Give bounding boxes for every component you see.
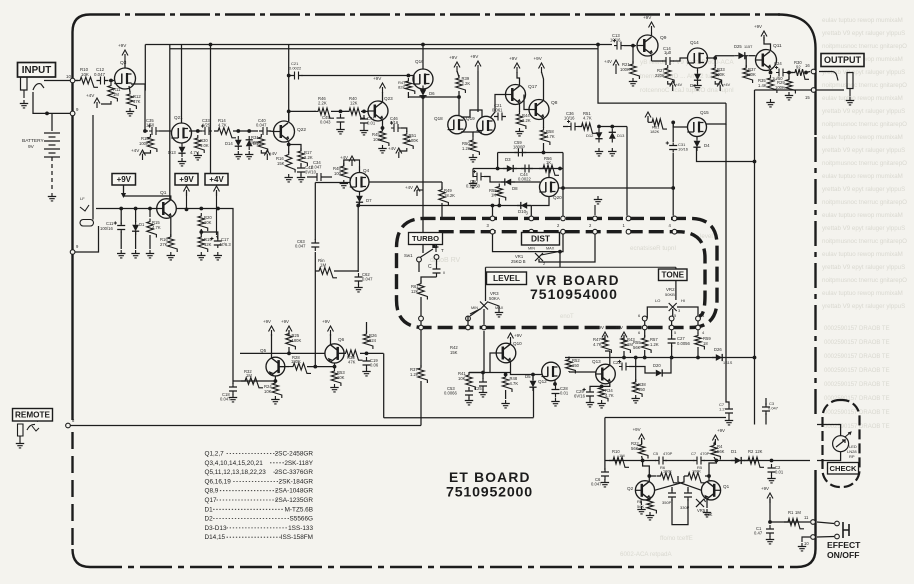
svg-text:+9V: +9V — [281, 319, 289, 324]
wire r49 — [441, 203, 443, 218]
wire pin3b drop — [530, 206, 532, 216]
wire row 182 — [484, 177, 540, 183]
+9V bent arrow q15 — [647, 116, 649, 122]
wire q19 source — [473, 131, 482, 133]
wire q10 emitter — [511, 362, 543, 375]
battery B1 — [44, 133, 60, 157]
ground under R48 — [340, 180, 348, 188]
pin pair 4 at x674.5 — [672, 216, 677, 221]
svg-text:2SC-3376GR: 2SC-3376GR — [275, 469, 314, 476]
svg-text:Q14: Q14 — [690, 40, 699, 45]
transistor Q13 — [596, 364, 616, 384]
resistor R61 12K — [418, 281, 428, 300]
node q15 gate — [671, 121, 675, 125]
resistor R46 2.2K — [314, 108, 334, 118]
capacitor C50 0.22/50 electrolytic — [474, 173, 484, 181]
resistor R24 10K — [272, 380, 282, 398]
svg-text:+4V: +4V — [604, 59, 612, 64]
svg-text:1/25: 1/25 — [202, 123, 211, 128]
diode D13 — [609, 132, 616, 138]
wire r20-r19 — [200, 229, 202, 235]
capacitor C46 7/16 — [391, 124, 401, 132]
pin pair 1 at x628.5 — [626, 216, 631, 221]
+4V arrow under R13 — [143, 150, 151, 153]
capacitor C24 electrolytic — [776, 69, 786, 77]
resistor R39 2.2K — [456, 75, 466, 93]
svg-text:47K: 47K — [133, 99, 141, 104]
node row205 at 492 — [491, 204, 495, 208]
transistor Q1 — [157, 199, 177, 219]
resistor R48 100 — [341, 163, 351, 181]
ground under r24 — [271, 396, 279, 404]
resistor R48 4.7K — [502, 374, 512, 392]
wire r61 down — [420, 297, 422, 367]
wire pin9 stub — [47, 112, 70, 114]
resistor R17 2.2K — [298, 148, 308, 166]
svg-text:II: II — [443, 271, 445, 275]
wire vr 267 — [486, 266, 676, 268]
svg-text:1M: 1M — [795, 510, 801, 515]
wire rin right — [334, 270, 359, 272]
node q9 base — [631, 44, 635, 48]
wire to Q3 gate — [109, 80, 114, 82]
input jack ground — [20, 100, 28, 108]
svg-text:2SA-1048GR: 2SA-1048GR — [275, 488, 313, 495]
pin pair 2 at x563 — [561, 216, 566, 221]
node d26 row — [753, 356, 757, 360]
capacitor C44 0.0022 — [521, 165, 533, 173]
ground under c1 — [766, 536, 774, 544]
wire cross A — [678, 476, 702, 490]
pin pair 3 at x492.5 — [490, 216, 495, 221]
svg-text:6V/16: 6V/16 — [574, 394, 586, 399]
resistor R13 100K — [147, 134, 157, 152]
svg-text:2SK-184GR: 2SK-184GR — [279, 478, 314, 485]
svg-text:470P: 470P — [700, 451, 710, 456]
wire Q3 drain up — [124, 60, 126, 68]
svg-text:Q23: Q23 — [384, 96, 393, 101]
wire battery top — [51, 113, 53, 131]
svg-text:Q12: Q12 — [538, 379, 547, 384]
transistor Q11 — [756, 50, 777, 71]
wire r58b — [635, 358, 637, 383]
wire q6 base — [339, 352, 345, 354]
svg-text:150: 150 — [572, 363, 580, 368]
wire r37 top — [745, 56, 747, 67]
ground under c6 — [601, 479, 609, 487]
wire r43 down — [623, 351, 625, 358]
svg-text:100K: 100K — [620, 67, 630, 72]
svg-text:+4V: +4V — [86, 93, 95, 98]
wire r41 row — [469, 372, 511, 374]
wire q1 coll up — [124, 196, 171, 200]
wire row75 to q16 — [408, 76, 414, 84]
diode D3 — [507, 165, 513, 172]
svg-text:1.2: 1.2 — [719, 407, 725, 412]
output jack hook — [819, 72, 838, 81]
ground under r35 — [766, 99, 774, 107]
node tone b1 — [643, 356, 647, 360]
ground under R12 — [126, 108, 134, 116]
node row152 a — [542, 151, 546, 155]
pin 9b on border — [70, 250, 75, 255]
+9V arrow r4 — [714, 439, 716, 445]
svg-text:noitpmusnoc tnerruc gnitarepO: noitpmusnoc tnerruc gnitarepO — [822, 82, 907, 89]
svg-text:1M: 1M — [619, 453, 625, 458]
wire pin3 drop — [492, 206, 494, 216]
svg-text:D1: D1 — [139, 222, 145, 227]
node q20 pin2 — [561, 186, 565, 190]
ground under qa — [637, 506, 645, 514]
+9V arrow R25 — [288, 330, 290, 336]
svg-text:eulav tuptuo rewop mumixaM: eulav tuptuo rewop mumixaM — [822, 251, 903, 258]
svg-text:D14: D14 — [225, 141, 233, 146]
resistor R38 47K — [342, 350, 363, 360]
transistor Q16 — [413, 69, 433, 89]
svg-text:yrettab V9 epyt raluger ylppuS: yrettab V9 epyt raluger ylppuS — [822, 147, 905, 154]
svg-text:Q17: Q17 — [205, 497, 218, 504]
resistor R52 150 — [566, 357, 576, 374]
wire r52 to q13 — [569, 371, 596, 373]
vertical x315 rin — [314, 271, 316, 367]
wire td2 — [671, 345, 673, 358]
svg-text:C: C — [428, 264, 432, 270]
+9V arrow pair1 — [456, 66, 458, 72]
node c21 left — [287, 74, 291, 78]
resistor R56 1K — [539, 165, 559, 175]
wire x627 to pin — [626, 127, 628, 216]
svg-text:100K: 100K — [409, 138, 419, 143]
svg-text:+9V: +9V — [596, 325, 604, 330]
svg-text:TONE: TONE — [661, 270, 684, 279]
wire q20 bottom — [531, 197, 549, 206]
resistor R11 1M — [108, 83, 118, 102]
svg-text:D5: D5 — [525, 374, 531, 379]
svg-text:C25: C25 — [474, 386, 482, 391]
svg-text:eulav tuptuo rewop mumixaM: eulav tuptuo rewop mumixaM — [822, 290, 903, 297]
node q1 out end — [216, 207, 220, 211]
resistor R2 12K — [744, 457, 764, 467]
wire q11 emitter — [770, 70, 772, 73]
wire pin11 row — [770, 521, 810, 523]
resistor R45 10K — [379, 128, 389, 146]
svg-text:D12: D12 — [586, 133, 594, 138]
svg-text:2SC-2458GR: 2SC-2458GR — [275, 451, 314, 458]
tone stub2 — [671, 321, 673, 325]
wire row 75 — [302, 75, 409, 77]
wire Q8 collector — [542, 72, 544, 101]
resistor R44 2.2K — [516, 111, 526, 129]
svg-text:eulav tuptuo rewop mumixaM: eulav tuptuo rewop mumixaM — [822, 17, 903, 24]
+9V arrow Q9 — [651, 26, 653, 32]
svg-text:D4: D4 — [704, 143, 710, 148]
wire to clip diodes — [233, 130, 258, 132]
wire Q23 collector up — [382, 92, 384, 102]
svg-text:7510954000: 7510954000 — [530, 286, 618, 302]
resistor Rin 1M — [315, 268, 337, 278]
wire input to border — [44, 80, 70, 82]
CHECK label — [828, 463, 859, 475]
node battery junction — [45, 112, 49, 116]
node d12 top — [597, 125, 601, 129]
wire osc bottom — [672, 499, 688, 525]
wire top bus second — [170, 48, 598, 50]
wire battery bottom — [51, 157, 53, 192]
svg-text:+4V: +4V — [723, 82, 731, 87]
capacitor C23 electrolytic — [619, 363, 629, 371]
svg-text:noitpmusnoc tnerruc gnitarepO: noitpmusnoc tnerruc gnitarepO — [822, 43, 907, 50]
wire row 353 left — [240, 352, 325, 354]
svg-text:50KB: 50KB — [665, 292, 675, 297]
diode D8 — [505, 179, 511, 186]
svg-text:TURBO: TURBO — [412, 234, 439, 243]
wire q1 out — [176, 208, 218, 210]
wire x358 down — [357, 206, 359, 273]
wire x563 drop — [562, 153, 564, 206]
svg-text:D1: D1 — [205, 506, 214, 513]
svg-text:R2: R2 — [748, 449, 754, 454]
resistor R61b 182K — [648, 119, 667, 129]
svg-text:+9V: +9V — [717, 428, 725, 433]
svg-text:+9V: +9V — [761, 486, 769, 491]
+9V arrow Q8 — [541, 67, 543, 73]
capacitor C14 — [662, 57, 674, 65]
ground at pin 595 — [594, 205, 596, 215]
svg-text:tnerruC niarD ... Am02 tupnI: tnerruC niarD ... Am02 tupnI — [640, 73, 720, 80]
svg-text:Q1: Q1 — [160, 190, 167, 196]
capacitor C41 0.01 — [360, 115, 368, 127]
svg-text:1M: 1M — [113, 92, 119, 97]
wire Q17 collector — [519, 103, 521, 112]
svg-text:56K: 56K — [633, 345, 641, 350]
ground under D13 — [608, 148, 616, 156]
wire x478 down — [477, 71, 479, 112]
svg-text:82K: 82K — [398, 85, 405, 90]
wire Q8 emitter — [543, 119, 545, 128]
svg-text:7/16: 7/16 — [390, 120, 399, 125]
ground under r8b — [646, 512, 654, 520]
level ground — [495, 309, 503, 317]
svg-text:+4V: +4V — [388, 146, 396, 151]
resistor R6 100K — [657, 473, 678, 483]
node out — [804, 71, 808, 75]
remote wire — [68, 425, 421, 427]
ground pin10 — [802, 537, 810, 542]
svg-text:eulav tuptuo rewop mumixaM: eulav tuptuo rewop mumixaM — [822, 134, 903, 141]
svg-text:Q2: Q2 — [627, 486, 634, 491]
svg-text:10K: 10K — [204, 220, 212, 225]
wire r15 — [149, 209, 151, 218]
transistor Q1 osc — [701, 481, 720, 500]
wire c50 — [473, 169, 474, 177]
resistor R51b 4.7K — [578, 123, 597, 133]
transistor Q21 — [172, 123, 192, 143]
+9V arrow eff — [769, 497, 771, 503]
capacitor C21b 0.0022 — [291, 72, 303, 80]
svg-text:Q5: Q5 — [260, 348, 267, 353]
wire C35 to Q21 — [159, 130, 171, 132]
pin turbo bottom — [419, 325, 424, 330]
capacitor C34 0.047 — [313, 173, 325, 181]
node r10 — [641, 459, 645, 463]
ground under R30 — [194, 152, 202, 160]
resistor R10 10K — [76, 77, 98, 87]
svg-text:D3-D13: D3-D13 — [205, 525, 227, 532]
svg-text:1SS-133: 1SS-133 — [288, 525, 313, 532]
svg-text:BATTERY: BATTERY — [22, 138, 44, 144]
switch Sw1 — [417, 257, 422, 262]
svg-text:10K: 10K — [337, 375, 345, 380]
wire r46-r40 — [331, 110, 348, 112]
node q1 out1 — [199, 207, 203, 211]
ground under r53 — [330, 384, 338, 392]
diode D15 — [246, 140, 253, 146]
svg-text:25KΩ B: 25KΩ B — [511, 259, 526, 264]
wire Q3 out — [131, 84, 148, 131]
node row168 l — [496, 167, 500, 171]
remote jack — [18, 424, 24, 436]
svg-text:56K: 56K — [631, 446, 639, 451]
svg-text:4.7K: 4.7K — [546, 134, 555, 139]
ground under c25 — [479, 389, 487, 397]
ground under D13 — [178, 158, 186, 166]
svg-text:4.7K: 4.7K — [593, 342, 602, 347]
capacitor C27 0.0056 — [671, 330, 673, 336]
wire to Q22 base — [269, 130, 274, 133]
svg-text:+4V: +4V — [675, 82, 683, 87]
wire qb emit — [706, 500, 708, 509]
wire c18 up — [232, 381, 234, 384]
wire d5 to corner — [533, 388, 535, 418]
svg-text:0.01: 0.01 — [367, 121, 376, 126]
node d4 row — [753, 160, 757, 164]
node tone b2 — [670, 356, 674, 360]
node q5b row — [313, 365, 317, 369]
ground under r29 — [785, 92, 793, 100]
svg-text:Q6: Q6 — [338, 337, 345, 342]
transistor Q19 — [477, 116, 495, 134]
svg-text:D8: D8 — [512, 186, 518, 191]
svg-text:4.7K: 4.7K — [605, 393, 614, 398]
svg-text:ISS-158FM: ISS-158FM — [281, 534, 313, 541]
capacitor C3 0.047 — [762, 403, 770, 415]
svg-text:115T: 115T — [744, 45, 753, 49]
wire sw1 T up — [436, 243, 438, 248]
wire d12-d13 — [599, 126, 627, 128]
wire q4 to pin — [441, 217, 443, 219]
node q20 x673 — [671, 186, 675, 190]
svg-text:MIN: MIN — [528, 247, 535, 251]
svg-text:Q8: Q8 — [551, 100, 558, 106]
svg-text:18: 18 — [703, 341, 708, 346]
OUTPUT label — [821, 54, 864, 67]
pin 11 — [811, 520, 816, 525]
capacitor C45 0.043 — [337, 114, 345, 126]
wire c11 — [120, 209, 122, 225]
svg-text:Q15: Q15 — [700, 110, 709, 115]
wire row 205 — [358, 205, 531, 207]
pin 10 on border — [70, 78, 75, 83]
svg-text:2SK-118Y: 2SK-118Y — [284, 460, 313, 467]
svg-text:eulav tuptuo rewop mumixaM: eulav tuptuo rewop mumixaM — [822, 95, 903, 102]
node r5r — [707, 474, 711, 478]
wire between FET pair — [461, 110, 482, 117]
capacitor C17 47/6.3 — [214, 238, 222, 248]
node x423 bus — [421, 43, 425, 47]
TONE label — [659, 269, 688, 281]
wire pin10 to sw — [817, 536, 834, 539]
svg-text:+9V: +9V — [514, 333, 522, 338]
svg-text:Q18: Q18 — [434, 116, 443, 121]
input jack hook — [33, 84, 44, 90]
DIST label — [522, 233, 560, 246]
svg-text:0.01: 0.01 — [775, 470, 784, 475]
ground under r58b — [632, 395, 640, 403]
ground under R45 — [378, 145, 386, 153]
+9V arrow r22 — [641, 438, 643, 444]
effect plug — [843, 522, 849, 538]
ground under c11 — [117, 250, 125, 258]
diode D26 — [716, 354, 722, 361]
ground under R44 — [515, 128, 523, 136]
ET inner rect bottom — [384, 417, 534, 419]
svg-text:RP: RP — [849, 454, 855, 459]
svg-text:+9V: +9V — [534, 56, 543, 61]
wire cross B — [655, 476, 685, 490]
svg-text:+9V: +9V — [118, 43, 127, 48]
ground under r19 — [197, 252, 205, 260]
capacitor C11 100/16 electrolytic — [117, 223, 125, 233]
remote jack hook — [27, 424, 35, 430]
svg-text:Q5,11,12,13,18,22,23: Q5,11,12,13,18,22,23 — [205, 469, 267, 476]
resistor R35 1.4K — [767, 75, 777, 93]
wire sw to cap — [436, 260, 438, 266]
capacitor C19 0.06 — [363, 357, 371, 369]
ground under c17 — [214, 252, 222, 260]
arrow under box4 — [216, 190, 218, 196]
svg-text:15: 15 — [805, 95, 810, 100]
effect switch contacts — [835, 521, 840, 526]
svg-text:eulav tuptuo rewop mumixaM: eulav tuptuo rewop mumixaM — [822, 173, 903, 180]
svg-text:D13: D13 — [617, 133, 625, 138]
node q1 in c — [148, 207, 152, 211]
svg-text:noitpmusnoc tnerruc gnitarepO: noitpmusnoc tnerruc gnitarepO — [822, 238, 907, 245]
wire pin11 to sw — [817, 522, 834, 524]
resistor R20 10K — [198, 213, 208, 231]
resistor R32 1M — [241, 378, 263, 388]
tone stub3 — [697, 321, 699, 325]
transistor Q23 — [368, 101, 388, 121]
pin 15 output — [811, 88, 816, 93]
resistor R5 100K — [684, 473, 705, 483]
wire bus left drop — [144, 45, 146, 91]
svg-text:+4V: +4V — [131, 148, 140, 153]
svg-text:1800P: 1800P — [513, 145, 525, 150]
capacitor C25 0.061 — [479, 378, 487, 390]
capacitor C33 1/25 — [202, 127, 212, 135]
svg-text:R1: R1 — [788, 510, 794, 515]
wire row 357 left — [565, 357, 620, 359]
wire d25 row — [715, 55, 734, 57]
wire x93 sleeve — [92, 115, 94, 220]
svg-text:180K: 180K — [291, 359, 301, 364]
svg-text:0.047: 0.047 — [256, 123, 267, 128]
LED — [833, 436, 849, 452]
svg-text:yrettab V9 epyt raluger ylppuS: yrettab V9 epyt raluger ylppuS — [822, 108, 905, 115]
wire r5 right — [705, 475, 709, 477]
svg-text:+9V: +9V — [470, 54, 479, 59]
ground under C41 — [360, 127, 368, 135]
